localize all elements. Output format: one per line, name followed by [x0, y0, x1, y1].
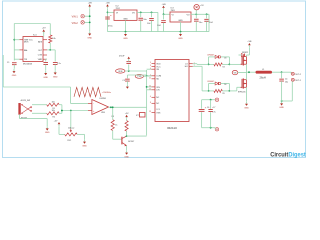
svg-text:+5V: +5V — [125, 113, 129, 115]
svg-text:CircuitDigest: CircuitDigest — [270, 152, 306, 159]
svg-text:+VB: +VB — [162, 4, 167, 6]
svg-text:GND: GND — [82, 145, 87, 147]
svg-text:D3: D3 — [224, 58, 226, 60]
svg-text:GND: GND — [123, 18, 128, 20]
svg-text:LM358: LM358 — [100, 98, 107, 100]
svg-text:IR2110: IR2110 — [167, 126, 177, 130]
svg-text:GND: GND — [178, 38, 183, 40]
svg-text:VO: VO — [186, 15, 189, 17]
svg-text:MOS: MOS — [24, 42, 29, 44]
svg-text:470uF: 470uF — [119, 55, 125, 57]
svg-text:OUT-2: OUT-2 — [295, 74, 302, 76]
svg-text:13: 13 — [149, 111, 151, 113]
svg-text:10k,var: 10k,var — [68, 128, 75, 130]
svg-text:VFB: VFB — [118, 71, 123, 73]
svg-text:VCC: VCC — [156, 66, 161, 68]
svg-text:MC34063: MC34063 — [23, 63, 33, 65]
svg-text:VIN-1: VIN-1 — [72, 16, 79, 19]
svg-text:GND: GND — [123, 38, 128, 40]
svg-text:3: 3 — [150, 65, 151, 67]
svg-text:RV1: RV1 — [68, 140, 72, 142]
svg-text:D4: D4 — [224, 84, 226, 86]
svg-text:+5V: +5V — [200, 5, 204, 7]
svg-text:1k: 1k — [115, 124, 117, 126]
svg-text:+VB: +VB — [247, 41, 252, 43]
svg-text:+VB: +VB — [88, 2, 93, 4]
svg-text:7805: 7805 — [171, 10, 175, 12]
svg-text:4.7u: 4.7u — [212, 112, 215, 114]
svg-text:8: 8 — [150, 102, 151, 104]
svg-text:UF4007: UF4007 — [207, 81, 214, 83]
svg-text:BC547: BC547 — [128, 141, 134, 143]
svg-text:10u: 10u — [285, 82, 288, 84]
svg-text:OUT-1: OUT-1 — [295, 80, 302, 82]
svg-text:VIN-2: VIN-2 — [72, 22, 79, 25]
svg-text:9: 9 — [150, 62, 151, 64]
svg-text:+5V: +5V — [42, 28, 46, 30]
svg-text:+VB: +VB — [106, 2, 111, 4]
svg-text:IC?: IC? — [136, 115, 139, 117]
svg-text:2.2n: 2.2n — [57, 63, 61, 65]
svg-text:VDD: VDD — [156, 63, 161, 65]
svg-text:R4: R4 — [223, 67, 225, 69]
svg-text:GND: GND — [178, 20, 183, 22]
svg-text:IC2: IC2 — [116, 5, 119, 7]
svg-text:HO: HO — [185, 66, 188, 68]
svg-text:R2: R2 — [53, 117, 55, 119]
svg-text:NC: NC — [156, 103, 159, 105]
svg-text:+C7: +C7 — [212, 107, 215, 109]
svg-text:C1: C1 — [7, 62, 9, 64]
svg-text:R5: R5 — [223, 93, 225, 95]
svg-text:CON: CON — [38, 55, 43, 57]
svg-text:TSD: TSD — [137, 76, 142, 78]
svg-text:10u: 10u — [199, 22, 202, 24]
svg-text:VSS: VSS — [156, 112, 161, 114]
svg-text:IC3: IC3 — [171, 7, 174, 9]
svg-text:R1: R1 — [53, 108, 55, 110]
svg-text:IRF3205: IRF3205 — [238, 92, 245, 94]
svg-text:GND: GND — [43, 77, 48, 79]
svg-text:+200KHz: +200KHz — [102, 92, 111, 94]
svg-text:GND: GND — [244, 108, 249, 110]
svg-text:C5: C5 — [122, 80, 124, 82]
svg-text:LO: LO — [185, 64, 188, 66]
svg-text:LIN: LIN — [156, 90, 160, 92]
svg-text:NC: NC — [156, 97, 159, 99]
svg-text:1N5822: 1N5822 — [242, 52, 248, 54]
svg-text:+5V: +5V — [54, 121, 58, 123]
svg-text:C6: C6 — [207, 107, 209, 109]
svg-text:TRI: TRI — [24, 59, 28, 61]
svg-text:4: 4 — [150, 96, 151, 98]
svg-text:VIN: VIN — [156, 87, 160, 89]
svg-text:11: 11 — [149, 77, 151, 79]
svg-text:GND: GND — [87, 37, 92, 39]
svg-text:7812: 7812 — [116, 8, 120, 10]
svg-text:GND: GND — [12, 75, 17, 77]
svg-text:40123_SW: 40123_SW — [21, 100, 31, 102]
svg-text:GND: GND — [53, 76, 58, 78]
svg-text:GND: GND — [279, 107, 284, 109]
svg-text:470u: 470u — [108, 25, 113, 27]
svg-text:TMR VCC: TMR VCC — [24, 39, 33, 41]
svg-text:GND: GND — [124, 156, 129, 158]
svg-text:VMR: VMR — [38, 59, 43, 61]
svg-text:UF4007: UF4007 — [207, 54, 214, 56]
svg-text:VO: VO — [132, 13, 135, 15]
svg-text:10u: 10u — [143, 19, 146, 21]
svg-text:COM: COM — [156, 76, 161, 78]
svg-text:GND: GND — [45, 132, 50, 134]
